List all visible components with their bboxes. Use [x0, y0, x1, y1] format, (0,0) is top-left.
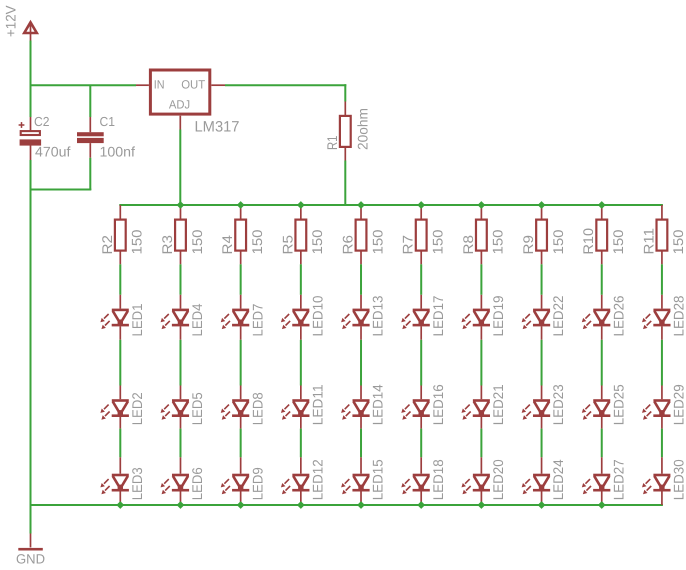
resistor R4 [235, 220, 246, 251]
wire LED27 cathode pin [601, 491, 603, 506]
junction node ground bus/LED27 [598, 501, 606, 509]
svg-text:LED14: LED14 [370, 384, 386, 425]
LED LED7 [221, 309, 250, 330]
wire LED1 cathode pin [119, 326, 121, 339]
wire LED21 anode pin [480, 386, 482, 400]
wire R9 bottom pin [541, 251, 543, 265]
resistor R9 [536, 220, 547, 251]
wire [480, 264, 482, 295]
wire LED3 anode pin [119, 457, 121, 473]
wire +12V rail down to C2 [30, 41, 32, 118]
LED LED18 [401, 474, 430, 495]
LED LED24 [522, 474, 551, 495]
wire LED13 anode pin [360, 295, 362, 309]
wire [360, 264, 362, 295]
LED LED19 [461, 309, 490, 330]
wire LED9 cathode pin [240, 491, 242, 506]
svg-text:100nf: 100nf [100, 144, 136, 160]
wire [661, 340, 663, 386]
wire [360, 429, 362, 458]
svg-text:LED23: LED23 [550, 384, 566, 425]
svg-text:LED5: LED5 [189, 392, 205, 425]
wire LED2 cathode pin [119, 417, 121, 429]
svg-text:LED24: LED24 [550, 459, 566, 500]
junction node bus/R3 [177, 201, 185, 209]
capacitor C2 (polarized) [19, 117, 41, 160]
wire LED19 cathode pin [480, 326, 482, 339]
junction node bus/R4 [237, 201, 245, 209]
wire LED22 anode pin [541, 295, 543, 309]
wire [119, 429, 121, 458]
capacitor C1 [77, 117, 104, 158]
wire LED28 cathode pin [661, 326, 663, 339]
wire top distribution bus [119, 204, 663, 206]
wire [360, 340, 362, 386]
svg-text:LED21: LED21 [490, 384, 506, 425]
svg-text:R8: R8 [460, 235, 476, 255]
wire R3 bottom pin [179, 251, 181, 265]
resistor R6 [356, 220, 367, 251]
LED LED9 [221, 474, 250, 495]
LED LED17 [401, 309, 430, 330]
resistor R1 [340, 102, 351, 161]
wire R7 top pin [420, 205, 422, 220]
svg-text:LED29: LED29 [671, 384, 686, 425]
wire LED23 cathode pin [541, 417, 543, 429]
junction node ground bus/LED9 [237, 501, 245, 509]
wire LED5 anode pin [179, 386, 181, 400]
wire LED6 cathode pin [179, 491, 181, 506]
wire [480, 429, 482, 458]
svg-text:GND: GND [16, 552, 45, 567]
svg-text:LED1: LED1 [129, 303, 145, 336]
LED LED6 [161, 474, 190, 495]
svg-text:LED20: LED20 [490, 459, 506, 500]
wire LED19 anode pin [480, 295, 482, 309]
svg-text:LED19: LED19 [490, 295, 506, 336]
wire LED26 anode pin [601, 295, 603, 309]
resistor R2 [115, 220, 126, 251]
svg-text:R10: R10 [580, 228, 596, 255]
wire LED20 anode pin [480, 457, 482, 473]
svg-text:LED2: LED2 [129, 392, 145, 425]
LED LED16 [401, 399, 430, 420]
svg-text:LED3: LED3 [129, 467, 145, 500]
wire [240, 264, 242, 295]
svg-text:150: 150 [309, 229, 325, 254]
wire LED3 cathode pin [119, 491, 121, 506]
wire LED25 anode pin [601, 386, 603, 400]
wire LED23 anode pin [541, 386, 543, 400]
svg-text:LED17: LED17 [430, 295, 446, 336]
wire [300, 264, 302, 295]
wire R5 bottom pin [300, 251, 302, 265]
wire LED1 anode pin [119, 295, 121, 309]
wire [119, 340, 121, 386]
junction node bus/R8 [477, 201, 485, 209]
wire [601, 429, 603, 458]
wire [300, 340, 302, 386]
junction node ground bus/LED12 [297, 501, 305, 509]
wire [179, 429, 181, 458]
wire R4 top pin [240, 205, 242, 220]
wire [541, 340, 543, 386]
wire R5 top pin [300, 205, 302, 220]
wire [601, 340, 603, 386]
wire [420, 340, 422, 386]
svg-text:LED9: LED9 [249, 467, 265, 500]
resistor R10 [596, 220, 607, 251]
wire [420, 264, 422, 295]
wire left rail C2 to GND [30, 160, 32, 534]
LED LED30 [642, 474, 671, 495]
wire R4 bottom pin [240, 251, 242, 265]
LED LED5 [161, 399, 190, 420]
svg-text:150: 150 [129, 229, 145, 254]
wire [240, 340, 242, 386]
junction node bus/R5 [297, 201, 305, 209]
wire LED17 cathode pin [420, 326, 422, 339]
junction node bus/R7 [417, 201, 425, 209]
svg-text:150: 150 [369, 229, 385, 254]
svg-text:R4: R4 [219, 235, 235, 255]
wire LED26 cathode pin [601, 326, 603, 339]
wire [661, 429, 663, 458]
LED LED2 [100, 399, 129, 420]
svg-text:150: 150 [189, 229, 205, 254]
wire [179, 340, 181, 386]
svg-text:LED25: LED25 [610, 384, 626, 425]
power +12V supply symbol [24, 22, 37, 40]
wire [601, 264, 603, 295]
wire LED21 cathode pin [480, 417, 482, 429]
wire LED12 cathode pin [300, 491, 302, 506]
wire LED22 cathode pin [541, 326, 543, 339]
LED LED20 [461, 474, 490, 495]
svg-text:150: 150 [670, 229, 686, 254]
LED LED15 [341, 474, 370, 495]
svg-text:+12V: +12V [3, 5, 19, 37]
LED LED13 [341, 309, 370, 330]
svg-text:LED8: LED8 [249, 392, 265, 425]
resistor R5 [295, 220, 306, 251]
wire [541, 264, 543, 295]
svg-text:LED7: LED7 [249, 303, 265, 336]
wire LED29 anode pin [661, 386, 663, 400]
svg-text:LED6: LED6 [189, 467, 205, 500]
LED LED28 [642, 309, 671, 330]
ground symbol GND [18, 534, 43, 551]
wire LED24 anode pin [541, 457, 543, 473]
wire LED5 cathode pin [179, 417, 181, 429]
junction node ground bus/LED6 [177, 501, 185, 509]
LED LED22 [522, 309, 551, 330]
wire LM317 OUT to R1 [225, 84, 346, 86]
wire [661, 264, 663, 295]
wire LED20 cathode pin [480, 491, 482, 506]
svg-text:R5: R5 [279, 235, 295, 255]
svg-text:LED4: LED4 [189, 303, 205, 336]
svg-text:C2: C2 [34, 114, 50, 129]
wire LED4 cathode pin [179, 326, 181, 339]
LED LED23 [522, 399, 551, 420]
wire LED6 anode pin [179, 457, 181, 473]
LED LED25 [582, 399, 611, 420]
wire LED9 anode pin [240, 457, 242, 473]
svg-text:R1: R1 [324, 135, 340, 150]
wire [240, 429, 242, 458]
wire LED24 cathode pin [541, 491, 543, 506]
svg-text:R6: R6 [340, 235, 356, 255]
resistor R3 [175, 220, 186, 251]
svg-text:LED13: LED13 [370, 295, 386, 336]
wire LED17 anode pin [420, 295, 422, 309]
wire C1 bottom [89, 158, 91, 190]
wire LM317 ADJ to bus [179, 130, 181, 206]
wire LED10 cathode pin [300, 326, 302, 339]
svg-text:LED26: LED26 [610, 295, 626, 336]
wire LED16 anode pin [420, 386, 422, 400]
junction node ground bus/LED3 [116, 501, 124, 509]
wire LED7 anode pin [240, 295, 242, 309]
wire LED13 cathode pin [360, 326, 362, 339]
wire R9 top pin [541, 205, 543, 220]
resistor R8 [476, 220, 487, 251]
svg-text:150: 150 [430, 229, 446, 254]
wire R11 top pin [661, 205, 663, 220]
junction node ground bus/LED20 [477, 501, 485, 509]
svg-text:LED18: LED18 [430, 459, 446, 500]
wire R2 top pin [119, 205, 121, 220]
wire R10 bottom pin [601, 251, 603, 265]
LED LED4 [161, 309, 190, 330]
wire R6 bottom pin [360, 251, 362, 265]
wire R2 bottom pin [119, 251, 121, 265]
svg-text:R11: R11 [640, 228, 656, 255]
LED LED10 [281, 309, 310, 330]
resistor R7 [416, 220, 427, 251]
svg-text:150: 150 [490, 229, 506, 254]
svg-text:R7: R7 [400, 235, 416, 255]
junction node bus/R10 [598, 201, 606, 209]
svg-text:C1: C1 [100, 114, 116, 129]
svg-text:LED30: LED30 [671, 459, 686, 500]
wire LED2 anode pin [119, 386, 121, 400]
wire LED28 anode pin [661, 295, 663, 309]
wire LED29 cathode pin [661, 417, 663, 429]
svg-text:LED16: LED16 [430, 384, 446, 425]
LED LED8 [221, 399, 250, 420]
LED LED11 [281, 399, 310, 420]
wire R7 bottom pin [420, 251, 422, 265]
wire [420, 429, 422, 458]
svg-text:ADJ: ADJ [169, 98, 190, 112]
svg-text:LED15: LED15 [370, 459, 386, 500]
wire LED4 anode pin [179, 295, 181, 309]
wire LED8 anode pin [240, 386, 242, 400]
wire LED14 anode pin [360, 386, 362, 400]
wire LED18 cathode pin [420, 491, 422, 506]
svg-text:R3: R3 [159, 235, 175, 255]
wire R1 bottom to bus [344, 161, 346, 206]
wire [300, 429, 302, 458]
wire LED15 cathode pin [360, 491, 362, 506]
svg-text:150: 150 [610, 229, 626, 254]
LED LED21 [461, 399, 490, 420]
LED LED27 [582, 474, 611, 495]
svg-text:LED10: LED10 [309, 295, 325, 336]
svg-text:LED11: LED11 [309, 384, 325, 425]
wire LED25 cathode pin [601, 417, 603, 429]
svg-text:20ohm: 20ohm [354, 108, 370, 150]
wire LED10 anode pin [300, 295, 302, 309]
svg-text:R2: R2 [99, 235, 115, 255]
wire branch down to C1 [89, 85, 91, 117]
wire LED14 cathode pin [360, 417, 362, 429]
wire R8 top pin [480, 205, 482, 220]
wire R6 top pin [360, 205, 362, 220]
wire LED12 anode pin [300, 457, 302, 473]
wire bottom ground bus [30, 504, 663, 506]
wire R3 top pin [179, 205, 181, 220]
LED LED1 [100, 309, 129, 330]
LED LED12 [281, 474, 310, 495]
LED LED26 [582, 309, 611, 330]
wire down to R1 top [344, 84, 346, 101]
wire R10 top pin [601, 205, 603, 220]
wire [179, 264, 181, 295]
wire R11 bottom pin [661, 251, 663, 265]
wire LED27 anode pin [601, 457, 603, 473]
wire LED11 anode pin [300, 386, 302, 400]
LED LED14 [341, 399, 370, 420]
LED LED29 [642, 399, 671, 420]
voltage regulator U1 LM317 [136, 70, 225, 130]
wire LED7 cathode pin [240, 326, 242, 339]
junction node ground bus/LED15 [357, 501, 365, 509]
wire +12V rail to LM317 IN [31, 84, 137, 86]
wire LED30 cathode pin [661, 491, 663, 506]
svg-text:150: 150 [550, 229, 566, 254]
wire LED11 cathode pin [300, 417, 302, 429]
svg-text:LED27: LED27 [610, 459, 626, 500]
junction node bus/R9 [538, 201, 546, 209]
junction node ground bus/LED18 [417, 501, 425, 509]
svg-text:R9: R9 [520, 235, 536, 255]
svg-text:LED12: LED12 [309, 459, 325, 500]
wire [119, 264, 121, 295]
svg-text:470uf: 470uf [35, 144, 71, 160]
junction node bus/R6 [357, 201, 365, 209]
svg-text:IN: IN [154, 77, 165, 91]
svg-text:LM317: LM317 [195, 119, 240, 136]
junction node ground bus/LED24 [538, 501, 546, 509]
wire LED16 cathode pin [420, 417, 422, 429]
svg-text:LED28: LED28 [671, 295, 686, 336]
wire C2 bottom to C1 bottom [30, 189, 92, 191]
wire [541, 429, 543, 458]
LED LED3 [100, 474, 129, 495]
wire LED8 cathode pin [240, 417, 242, 429]
resistor R11 [657, 220, 668, 251]
svg-text:OUT: OUT [181, 77, 206, 91]
wire R8 bottom pin [480, 251, 482, 265]
wire LED15 anode pin [360, 457, 362, 473]
wire [480, 340, 482, 386]
wire LED18 anode pin [420, 457, 422, 473]
wire LED30 anode pin [661, 457, 663, 473]
svg-text:150: 150 [249, 229, 265, 254]
svg-text:LED22: LED22 [550, 295, 566, 336]
